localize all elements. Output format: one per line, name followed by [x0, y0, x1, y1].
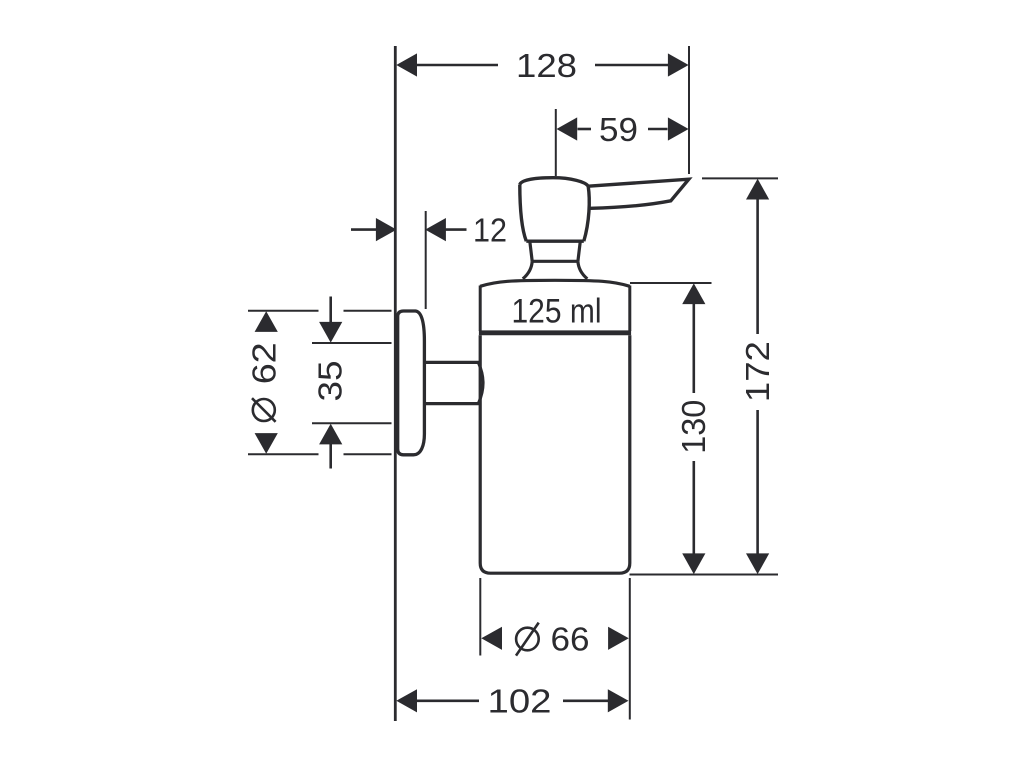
- dimension 102 line: [416, 699, 609, 702]
- dimension 35 stems: [329, 297, 332, 469]
- svg-text:12: 12: [473, 211, 507, 248]
- pump flare: [523, 261, 588, 279]
- dimension 12 arrows: [376, 218, 446, 241]
- dimension 35 arrows: [319, 322, 342, 445]
- diameter62 symbol: [252, 398, 276, 422]
- wall line: [394, 46, 397, 721]
- svg-text:102: 102: [488, 683, 552, 720]
- dimension 12 tails: [351, 228, 467, 231]
- pump head outline: [520, 178, 589, 242]
- ext line 172 top: [702, 177, 778, 179]
- bottle cap left edge: [479, 286, 482, 332]
- ext line bottom shared: [630, 574, 779, 576]
- svg-text:59: 59: [599, 111, 638, 148]
- dimension 128 arrows: [396, 53, 688, 76]
- diameter66 symbol: [516, 623, 539, 656]
- svg-text:130: 130: [675, 400, 712, 454]
- dimension 130 line: [692, 303, 695, 555]
- dimension 59 line: [578, 128, 668, 131]
- pump lever: [588, 179, 689, 208]
- svg-text:172: 172: [739, 341, 776, 402]
- dimension 172 arrows: [746, 179, 769, 574]
- bottle body: [480, 335, 630, 573]
- dimension 102 arrows: [396, 689, 628, 712]
- mounting arm bottom line: [424, 402, 479, 405]
- dimension 59 arrows: [557, 117, 689, 140]
- ext lines diameter62 bottom: [248, 453, 392, 455]
- dimension diameter66 arrows: [481, 627, 629, 650]
- svg-text:128: 128: [516, 47, 577, 84]
- pump neck: [530, 241, 581, 261]
- bottle cap bottom thick band: [479, 330, 631, 335]
- ext line pump center (59 left): [555, 109, 557, 176]
- svg-text:35: 35: [312, 361, 349, 402]
- svg-text:62: 62: [245, 342, 282, 384]
- ext lines 35: [312, 343, 392, 423]
- svg-text:66: 66: [551, 620, 590, 657]
- mounting arm top line: [424, 361, 479, 364]
- ext line bottle right bottom: [629, 578, 631, 720]
- bottle cap right edge: [628, 286, 631, 332]
- ext line bottle left bottom: [479, 578, 481, 656]
- dimension 128 line: [416, 64, 668, 67]
- ext line right for 128/59: [688, 46, 690, 174]
- dimension diameter62 arrows: [255, 311, 278, 454]
- ext line plate face (12 right): [425, 211, 427, 309]
- dimension 130 arrows: [682, 283, 705, 574]
- svg-text:125 ml: 125 ml: [512, 293, 602, 331]
- ext line 130 top: [630, 282, 712, 284]
- arm-bottle fillet arc: [479, 363, 484, 403]
- bottle cap top edge: [480, 280, 630, 286]
- wall plate outline: [398, 311, 425, 455]
- dimension 172 line: [756, 198, 759, 554]
- ext lines diameter62 top: [248, 310, 392, 312]
